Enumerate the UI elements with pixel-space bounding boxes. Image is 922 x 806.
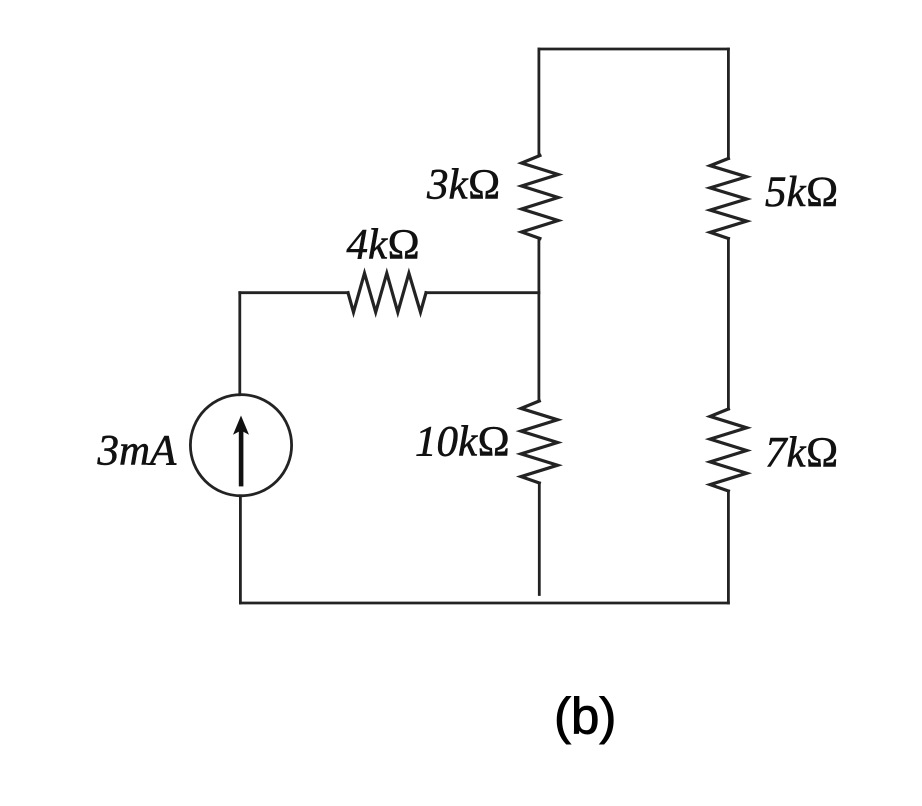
svg-text:7kΩ: 7kΩ	[765, 430, 839, 477]
resistor 5k	[710, 159, 747, 239]
wire bottom horizontal	[240, 602, 728, 605]
wire middle horizontal right of 4k to node A	[426, 291, 539, 294]
current source I1 circle	[190, 395, 291, 496]
svg-text:3kΩ: 3kΩ	[426, 162, 501, 209]
current source I1 arrow	[233, 416, 249, 487]
wire right-branch top vertical	[727, 49, 730, 159]
svg-text:10kΩ: 10kΩ	[415, 418, 510, 465]
wire top horizontal	[539, 48, 729, 51]
wire current source bottom	[239, 496, 242, 603]
svg-text:3mA: 3mA	[97, 428, 178, 475]
resistor 4k	[348, 273, 426, 312]
svg-text:5kΩ: 5kΩ	[765, 169, 839, 216]
wire 10k-bottom stub	[538, 483, 541, 595]
resistor 10k	[521, 401, 558, 483]
wire 3k-bottom to node A to 10k-top	[538, 239, 541, 402]
wire 7k-bottom to bottom wire	[727, 491, 730, 603]
wire left-branch top vertical	[538, 49, 541, 156]
resistor 3k	[522, 156, 559, 239]
svg-text:(b): (b)	[554, 688, 616, 745]
svg-text:4kΩ: 4kΩ	[347, 221, 421, 268]
resistor 7k	[710, 409, 747, 491]
wire from middle node down to current source	[238, 293, 241, 395]
wire 5k-bottom to 7k-top	[727, 239, 730, 410]
wire middle horizontal left of 4k	[240, 291, 348, 294]
